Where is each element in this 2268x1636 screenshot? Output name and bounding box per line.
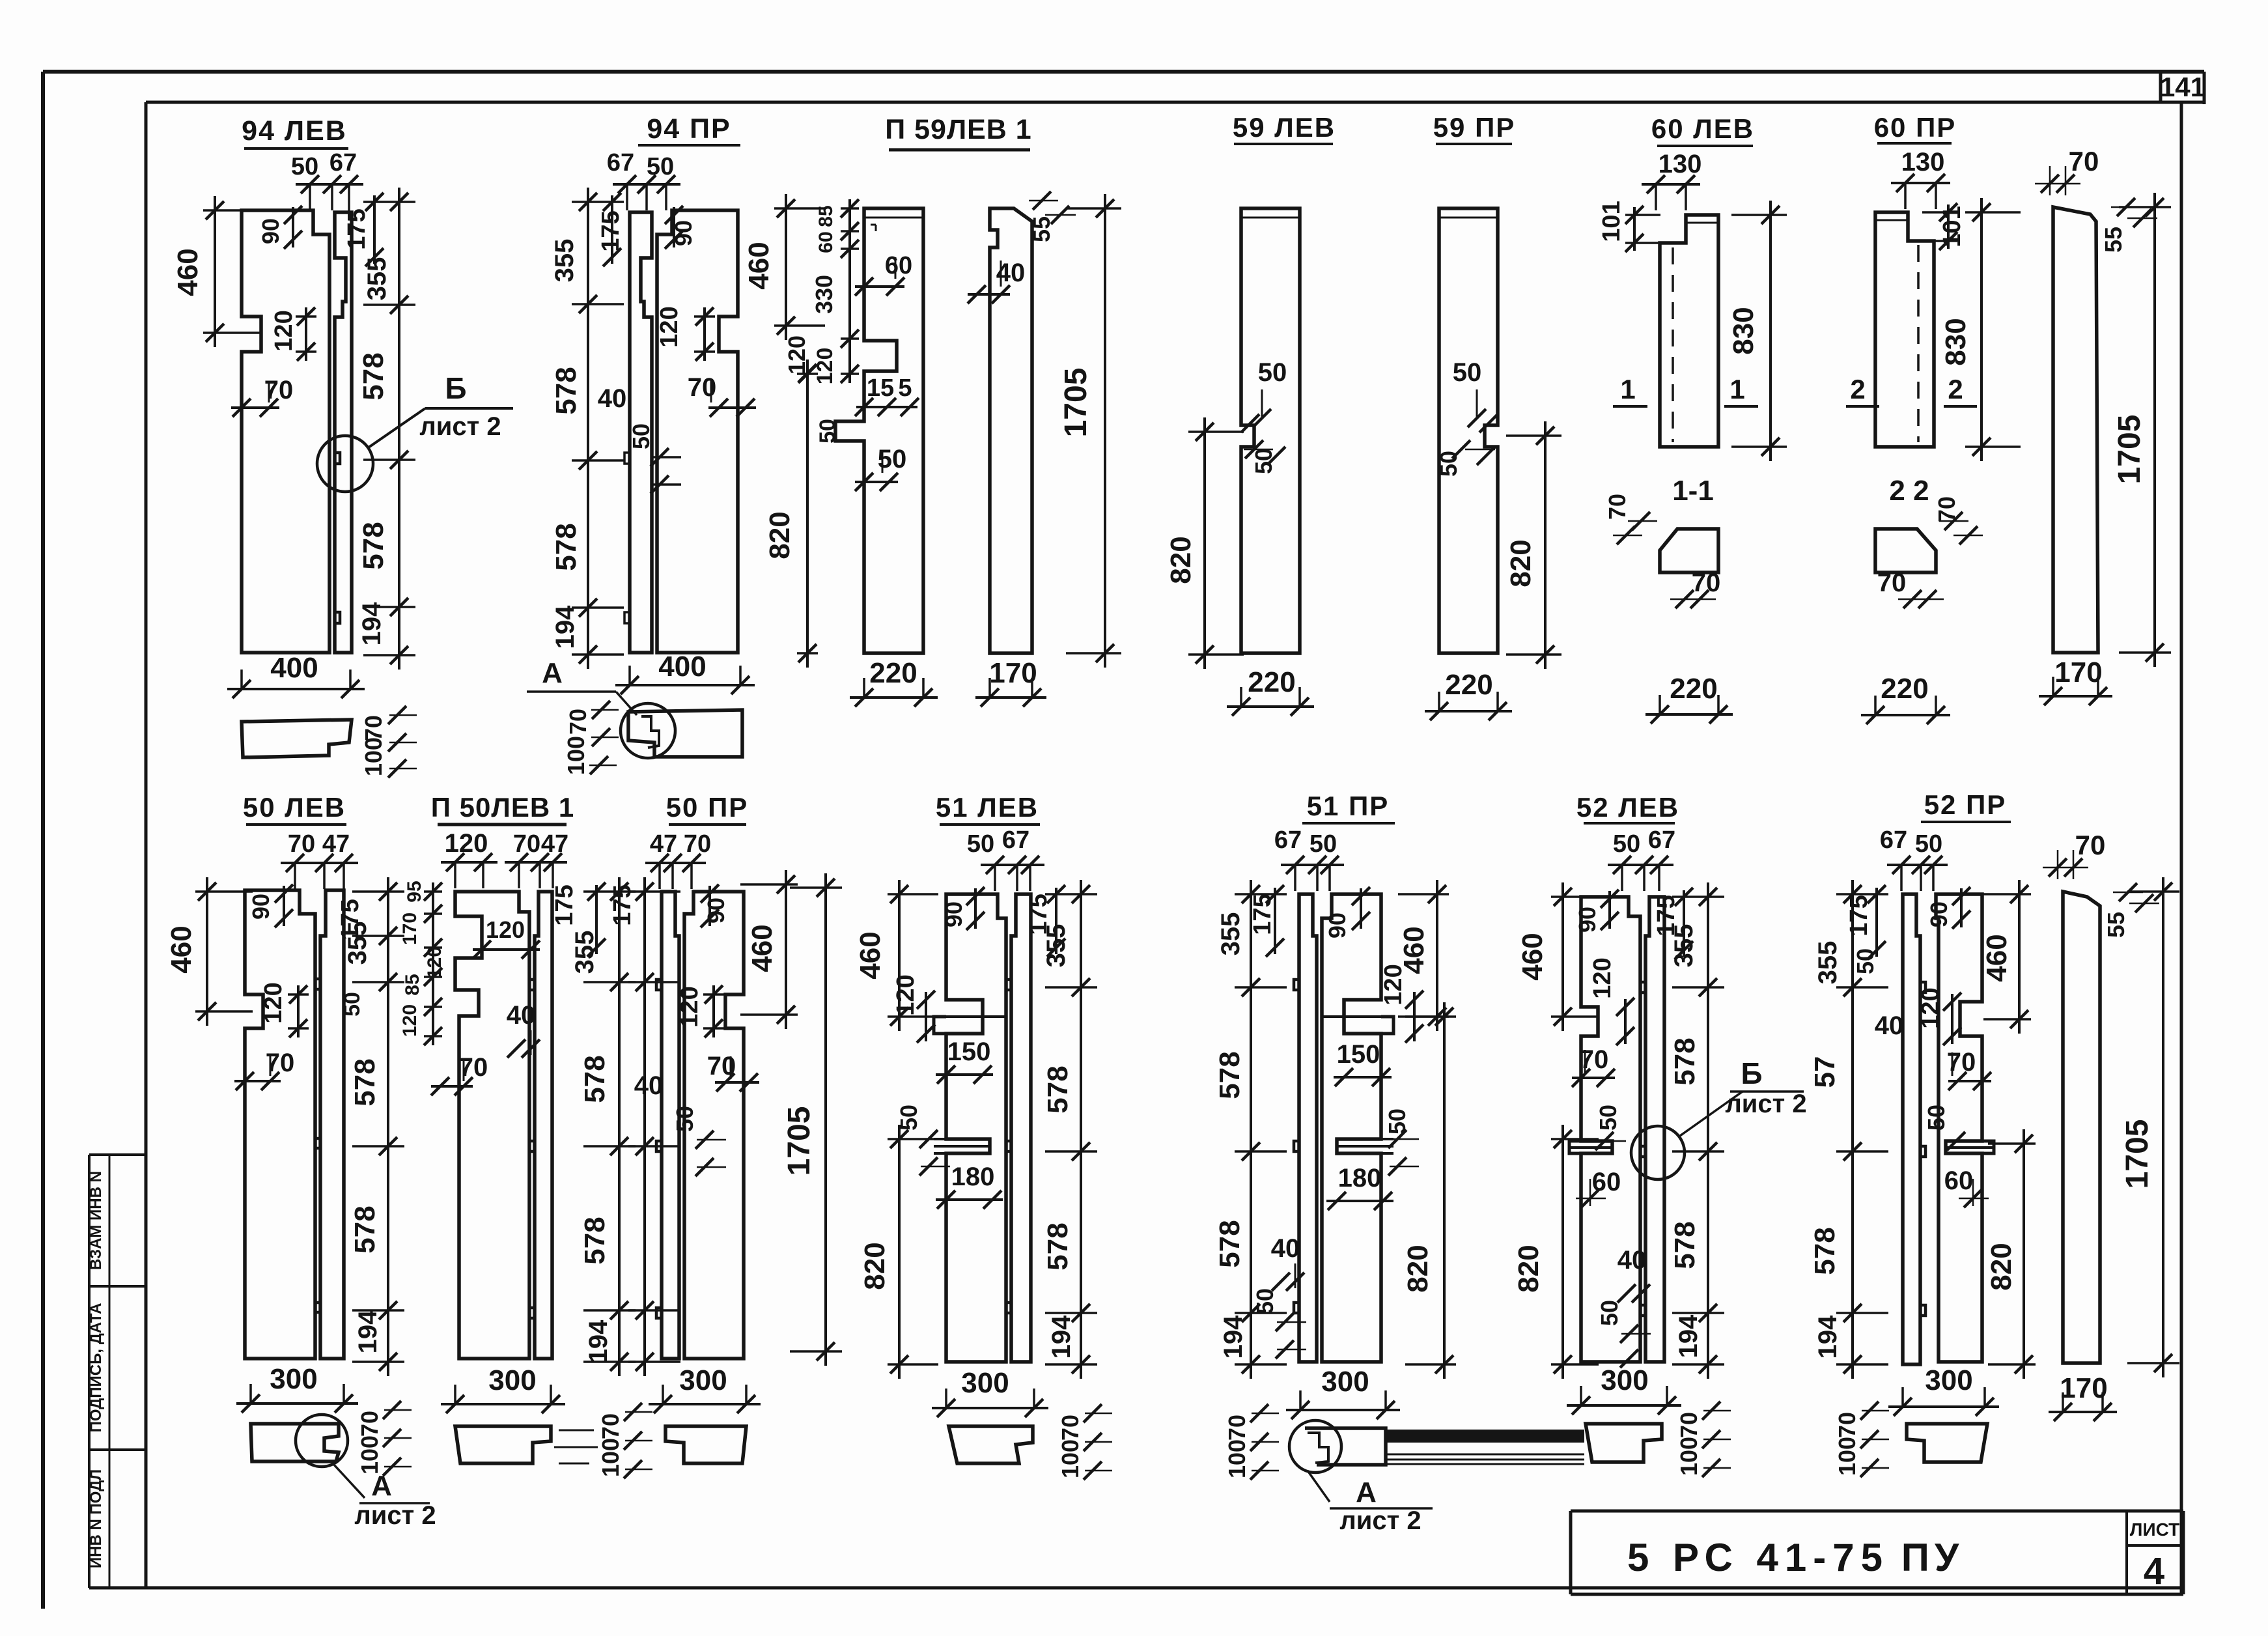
svg-text:578: 578 [349,1058,381,1106]
figure 94 пр rib bar [630,212,652,653]
svg-text:101: 101 [1598,201,1625,242]
figure 52 лев right dimension chain [1707,882,1709,1379]
svg-text:90: 90 [257,218,284,244]
svg-text:460: 460 [1398,926,1430,974]
svg-text:300: 300 [1601,1364,1648,1396]
svg-text:70: 70 [1675,1412,1702,1438]
right tall panel dimension 1705 [2153,193,2156,667]
figure П 50 лев 1 panel profile staircase [455,892,529,1359]
svg-text:578: 578 [550,523,582,571]
svg-text:300: 300 [1925,1364,1972,1396]
svg-text:90: 90 [1574,907,1601,933]
figure 51 пр rib bar [1299,894,1317,1362]
figure 60 пр hidden dashed line [1917,245,1920,442]
figure 52 лев cap section [1586,1424,1662,1462]
svg-text:830: 830 [1728,307,1759,354]
svg-text:578: 578 [1042,1065,1074,1113]
svg-text:300: 300 [488,1364,536,1396]
svg-text:П 50ЛЕВ 1: П 50ЛЕВ 1 [431,792,574,823]
svg-text:194: 194 [1219,1315,1248,1359]
svg-text:60: 60 [1944,1166,1974,1195]
svg-text:100: 100 [1675,1437,1702,1476]
figure 60 пр dimension 830 [1980,198,1983,461]
figure П 50 лев 1 cap section [455,1426,551,1463]
figure 59 лев panel profile [1241,208,1300,653]
figure 51 лев cap section [949,1426,1033,1463]
svg-text:2 2: 2 2 [1889,475,1929,507]
figure 60 пр section shape [1875,529,1936,572]
svg-text:175: 175 [551,884,578,925]
svg-text:70: 70 [288,830,315,858]
svg-text:820: 820 [859,1242,891,1290]
svg-text:67: 67 [607,149,634,176]
svg-text:180: 180 [1338,1164,1382,1192]
svg-text:90: 90 [940,901,967,927]
svg-text:2: 2 [1850,374,1865,404]
svg-text:70: 70 [1604,494,1631,520]
svg-text:120: 120 [783,335,810,374]
svg-text:170: 170 [989,657,1037,689]
svg-text:50: 50 [1258,358,1287,387]
svg-text:100: 100 [1057,1439,1084,1478]
figure 59 лев dimension 820 [1203,417,1206,669]
svg-text:70: 70 [1877,569,1907,597]
svg-text:130: 130 [1901,148,1945,176]
svg-text:120: 120 [1917,987,1944,1028]
svg-text:50 ПР: 50 ПР [666,792,749,823]
figure 60 пр panel profile [1875,212,1934,447]
figure 52 пр left dimension chain [1851,880,1854,1379]
figure 50 пр cap section [665,1426,746,1463]
svg-text:70: 70 [688,373,717,402]
figure 94 пр cap section [628,710,742,757]
figure 50 лев rib notch marks [315,979,320,989]
svg-text:5: 5 [898,374,912,402]
svg-text:59 ЛЕВ: 59 ЛЕВ [1233,112,1336,143]
svg-text:60 ПР: 60 ПР [1874,112,1957,143]
svg-text:1705: 1705 [1059,368,1093,438]
svg-text:100: 100 [1834,1437,1860,1476]
svg-text:70: 70 [1834,1412,1860,1438]
figure 52 лев panel profile [1581,897,1640,1362]
figure П 50 лев 1 right dimension chain [618,877,621,1376]
svg-text:300: 300 [679,1364,727,1396]
figure 52 лев dimension 820 [1561,1125,1564,1379]
figure 94 лев rib bar [335,212,352,653]
figure 51 лев rib bar [1011,894,1031,1362]
svg-text:50: 50 [1852,948,1879,974]
svg-text:820: 820 [1985,1243,2017,1290]
svg-text:50: 50 [1309,830,1337,858]
svg-text:578: 578 [357,522,389,569]
svg-text:194: 194 [1047,1315,1076,1359]
svg-text:460: 460 [1517,933,1548,980]
svg-text:40: 40 [507,1001,536,1030]
figure 52 лев detail circle Б [1631,1126,1685,1179]
figure 94 пр left dimension chain [587,188,589,669]
svg-text:51 ПР: 51 ПР [1307,791,1390,821]
svg-text:95: 95 [404,881,425,902]
svg-text:50: 50 [1923,1105,1950,1131]
figure 94 лев rib notch marks [335,453,340,464]
figure 94 пр panel profile [657,210,738,653]
svg-text:лист 2: лист 2 [354,1501,436,1530]
figure 94 лев right dimension chain [398,188,400,670]
svg-text:194: 194 [584,1319,613,1363]
dimension 820 for П 59 лев 1 [806,360,809,668]
figure 51 пр panel profile [1322,894,1381,1362]
svg-text:67: 67 [1648,826,1675,854]
svg-text:355: 355 [1670,924,1698,968]
svg-text:60: 60 [885,252,912,279]
svg-text:55: 55 [2103,912,2129,938]
svg-text:355: 355 [570,931,599,974]
svg-text:50: 50 [291,153,318,180]
figure 60 лев hidden dashed line [1672,247,1674,442]
svg-text:120: 120 [676,986,703,1027]
svg-text:355: 355 [1216,912,1245,956]
figure 51 лев left dimension 460 [898,880,901,1031]
svg-text:50: 50 [967,830,994,858]
svg-text:50: 50 [671,1106,698,1132]
svg-text:220: 220 [1248,666,1295,698]
svg-text:90: 90 [1925,901,1952,927]
svg-text:175: 175 [343,208,371,249]
svg-text:70: 70 [684,830,711,858]
svg-text:300: 300 [270,1363,317,1395]
svg-text:355: 355 [1813,941,1842,985]
figure 60 лев panel profile [1660,215,1718,447]
figure 59 пр dimension 820 [1544,421,1547,669]
svg-text:94 ПР: 94 ПР [647,113,731,145]
svg-text:830: 830 [1940,318,1972,365]
page outer border top line [43,70,2204,74]
svg-text:1: 1 [1729,374,1744,404]
svg-text:300: 300 [1321,1366,1369,1398]
joint packing black bar [1384,1430,1584,1443]
svg-text:330: 330 [811,275,837,314]
svg-text:194: 194 [1813,1315,1842,1359]
figure 52 пр panel profile [1936,894,1982,1362]
inner drawing frame [146,101,2161,104]
svg-text:460: 460 [1981,934,2013,981]
svg-text:820: 820 [764,511,796,559]
svg-text:100: 100 [356,1435,383,1474]
svg-text:194: 194 [357,602,386,645]
svg-text:50: 50 [1596,1300,1623,1326]
svg-text:70: 70 [597,1413,624,1439]
figure 52 пр dimension 460 [2018,880,2021,1034]
svg-text:47: 47 [541,830,568,858]
figure 51 лев right dimension chain [1080,880,1082,1379]
svg-text:578: 578 [1042,1222,1074,1270]
svg-text:лист 2: лист 2 [1339,1506,1421,1535]
figure 94 пр cap detail circle А [621,703,675,758]
svg-text:85: 85 [402,974,423,995]
svg-text:94 ЛЕВ: 94 ЛЕВ [242,115,347,147]
svg-text:120: 120 [445,829,488,858]
svg-text:90: 90 [1324,912,1351,938]
figure 51 пр rib notch marks [1294,980,1299,990]
svg-text:67: 67 [1274,826,1302,854]
svg-text:355: 355 [343,922,372,965]
svg-text:55: 55 [2100,227,2127,253]
figure П 50 лев 1 left chain 95 170 120 85 120 [432,882,434,1045]
figure 50 лев cap section [251,1424,339,1461]
figure П 59 лев 1 panel profile [835,208,923,653]
svg-text:15: 15 [867,374,894,402]
svg-text:300: 300 [961,1367,1009,1399]
svg-text:578: 578 [1669,1221,1701,1269]
svg-text:50: 50 [1453,358,1482,387]
svg-text:820: 820 [1513,1245,1545,1292]
svg-text:60 ЛЕВ: 60 ЛЕВ [1651,113,1754,144]
svg-text:120: 120 [486,916,525,943]
svg-text:50: 50 [1595,1105,1621,1131]
svg-text:400: 400 [658,651,706,683]
figure 50 лев right dimension chain [387,877,389,1376]
svg-text:50: 50 [1915,830,1942,858]
svg-text:460: 460 [854,931,886,979]
svg-text:460: 460 [172,248,204,296]
svg-text:578: 578 [1214,1051,1246,1099]
svg-text:40: 40 [1875,1011,1904,1040]
svg-text:1: 1 [1620,374,1635,404]
figure 50 лев cap detail circle А [296,1415,348,1467]
svg-text:51 ЛЕВ: 51 ЛЕВ [936,792,1039,823]
svg-text:Б: Б [445,371,466,405]
svg-text:ИНВ N ПОДЛ: ИНВ N ПОДЛ [87,1469,105,1568]
svg-text:50 ЛЕВ: 50 ЛЕВ [243,792,346,823]
right tall panel bottom row profile [2063,892,2100,1363]
figure 50 пр panel profile [684,892,744,1359]
svg-text:40: 40 [1617,1246,1647,1275]
svg-text:578: 578 [1214,1220,1246,1267]
svg-text:ВЗАМ ИНВ N: ВЗАМ ИНВ N [87,1171,105,1270]
figure П 59 лев 1 second piece profile [990,208,1032,653]
svg-text:50: 50 [647,153,674,180]
svg-text:2: 2 [1948,374,1963,404]
svg-text:52 ПР: 52 ПР [1924,789,2007,820]
svg-text:47: 47 [650,830,677,858]
svg-text:220: 220 [1881,673,1928,705]
svg-text:120: 120 [656,306,683,347]
figure 94 лев panel profile [242,210,329,653]
svg-text:67: 67 [329,149,357,176]
svg-text:Б: Б [1741,1056,1762,1090]
svg-text:1705: 1705 [2112,415,2147,485]
svg-text:170: 170 [2060,1372,2107,1404]
svg-text:70: 70 [1580,1045,1609,1074]
figure 52 пр rib notch marks [1920,982,1925,993]
dimension 1705 right of 50 пр [824,873,827,1366]
dimension 1705 right of П 59 лев 1 [1104,194,1106,668]
svg-text:820: 820 [1165,536,1197,584]
svg-text:67: 67 [1002,826,1029,854]
figure 50 пр rib notch marks [656,980,662,990]
figure 51 лев panel profile [946,894,1006,1362]
figure 52 лев left dimension 460 [1561,882,1564,1031]
dimension chain 85 60 330 120 for П 59 лев 1 [848,199,851,383]
svg-text:194: 194 [354,1310,382,1353]
right tall panel top row profile [2053,207,2098,653]
svg-text:70: 70 [2069,146,2099,176]
svg-text:194: 194 [551,605,580,649]
svg-text:ПОДПИСЬ, ДАТА: ПОДПИСЬ, ДАТА [87,1303,105,1433]
svg-text:175: 175 [609,884,636,925]
figure 94 лев left dimension 460 [214,196,216,347]
svg-text:180: 180 [951,1163,995,1191]
svg-text:150: 150 [1337,1040,1380,1069]
svg-text:578: 578 [1809,1227,1841,1275]
svg-text:4: 4 [2144,1550,2164,1592]
svg-text:ПУ: ПУ [1901,1536,1964,1579]
figure 60 лев section shape [1660,529,1718,572]
svg-text:70: 70 [565,709,591,735]
svg-text:578: 578 [357,352,389,400]
svg-text:лист 2: лист 2 [1725,1090,1806,1118]
svg-text:100: 100 [563,736,589,775]
svg-text:150: 150 [947,1037,991,1066]
svg-text:1-1: 1-1 [1672,475,1714,507]
svg-text:А: А [1356,1476,1377,1508]
figure 52 лев rib notch marks [1640,982,1645,993]
svg-text:130: 130 [1659,150,1702,178]
svg-text:578: 578 [1669,1037,1701,1085]
figure 51 пр dimension 820 [1443,1002,1446,1379]
svg-text:578: 578 [550,367,582,414]
svg-text:460: 460 [165,925,197,973]
svg-text:355: 355 [550,239,579,283]
svg-text:175: 175 [1249,894,1276,935]
svg-text:355: 355 [363,257,391,301]
svg-text:50: 50 [1613,830,1640,858]
svg-text:400: 400 [270,652,318,684]
svg-text:120: 120 [424,946,445,979]
svg-text:120: 120 [892,974,919,1015]
svg-text:100: 100 [597,1438,624,1477]
svg-text:70: 70 [2075,830,2106,860]
svg-text:100: 100 [1224,1439,1250,1478]
figure 94 пр rib notch marks [624,453,630,464]
figure 52 пр cap section [1907,1424,1987,1462]
svg-text:194: 194 [1674,1314,1703,1358]
figure 52 пр rib bar [1903,894,1920,1364]
figure 50 пр left dimension chain [643,877,646,1376]
svg-text:820: 820 [1505,539,1537,587]
figure 50 лев rib bar [320,890,344,1359]
svg-text:50: 50 [340,992,365,1017]
svg-text:1705: 1705 [2120,1120,2155,1189]
dimension chain 460 120 left of П 59 лев 1 [785,194,787,340]
svg-text:460: 460 [743,242,775,289]
svg-text:120: 120 [399,1004,421,1037]
figure 94 лев cap section [242,720,352,757]
right tall panel bottom row dimension 1705 [2162,877,2164,1377]
svg-text:70: 70 [356,1411,383,1437]
figure 51 лев rib notch marks [1006,980,1011,990]
figure 60 лев dimension 830 [1769,201,1772,461]
figure П 50 лев 1 rib bar [535,892,552,1359]
figure 51 лев dimension 820 [898,1125,901,1379]
figure 52 лев rib bar [1645,897,1664,1362]
svg-text:59 ПР: 59 ПР [1433,112,1516,143]
svg-text:40: 40 [634,1071,664,1100]
svg-text:100: 100 [360,737,387,776]
svg-text:57: 57 [1809,1056,1841,1088]
figure 51 пр cap section with detail circle А [1305,1428,1386,1465]
svg-text:141: 141 [2160,72,2205,102]
svg-text:лист 2: лист 2 [419,412,501,441]
figure 50 пр rib bar [662,892,679,1359]
svg-text:70: 70 [1224,1415,1250,1441]
svg-text:50: 50 [628,423,654,449]
svg-text:578: 578 [579,1055,611,1103]
figure 50 лев left dimension 460 [206,877,208,1026]
svg-text:220: 220 [1445,669,1492,701]
svg-text:120: 120 [1589,957,1616,998]
title block bottom right [1571,1510,2183,1513]
svg-text:220: 220 [869,657,917,689]
svg-text:170: 170 [2054,656,2102,688]
svg-text:40: 40 [1271,1234,1300,1263]
svg-text:578: 578 [349,1206,381,1253]
svg-text:175: 175 [1845,895,1873,936]
svg-text:820: 820 [1402,1245,1434,1292]
figure П 50 лев 1 rib notch marks [529,980,535,990]
svg-text:5 РС 41-75: 5 РС 41-75 [1627,1536,1889,1579]
svg-text:120: 120 [260,982,287,1023]
svg-text:70: 70 [1057,1415,1084,1441]
dashes between caps [559,1430,594,1431]
figure 50 лев panel profile [245,890,315,1359]
svg-text:60: 60 [815,231,837,253]
svg-text:1705: 1705 [782,1107,817,1176]
svg-text:85: 85 [815,205,837,227]
svg-text:67: 67 [1880,826,1907,854]
svg-text:47: 47 [322,830,350,858]
svg-text:52 ЛЕВ: 52 ЛЕВ [1576,792,1679,823]
svg-text:ЛИСТ: ЛИСТ [2130,1519,2179,1540]
svg-text:А: А [542,657,563,689]
svg-text:120: 120 [270,310,298,351]
figure 94 лев detail circle Б [317,436,373,492]
svg-text:170: 170 [399,912,421,945]
figure 51 пр dimension 460 [1436,880,1438,1031]
svg-text:55: 55 [1028,216,1055,242]
svg-text:90: 90 [247,894,274,920]
svg-text:70: 70 [1947,1048,1976,1077]
svg-text:П 59ЛЕВ 1: П 59ЛЕВ 1 [885,114,1031,145]
svg-text:175: 175 [597,210,624,251]
page outer border left line [41,72,45,1609]
sheet number box 141 top right [2159,72,2163,102]
svg-text:40: 40 [598,384,627,413]
figure 51 пр left dimension chain [1250,880,1252,1379]
svg-text:460: 460 [746,924,778,972]
figure 52 пр dimension 820 [2023,1129,2025,1379]
svg-text:355: 355 [1042,924,1071,968]
figure 50 пр dimension 460 [785,870,787,1029]
figure 59 пр panel profile [1439,208,1498,653]
svg-text:578: 578 [579,1217,611,1264]
svg-text:220: 220 [1670,673,1717,705]
left sidebar stamp column [89,1153,146,1156]
